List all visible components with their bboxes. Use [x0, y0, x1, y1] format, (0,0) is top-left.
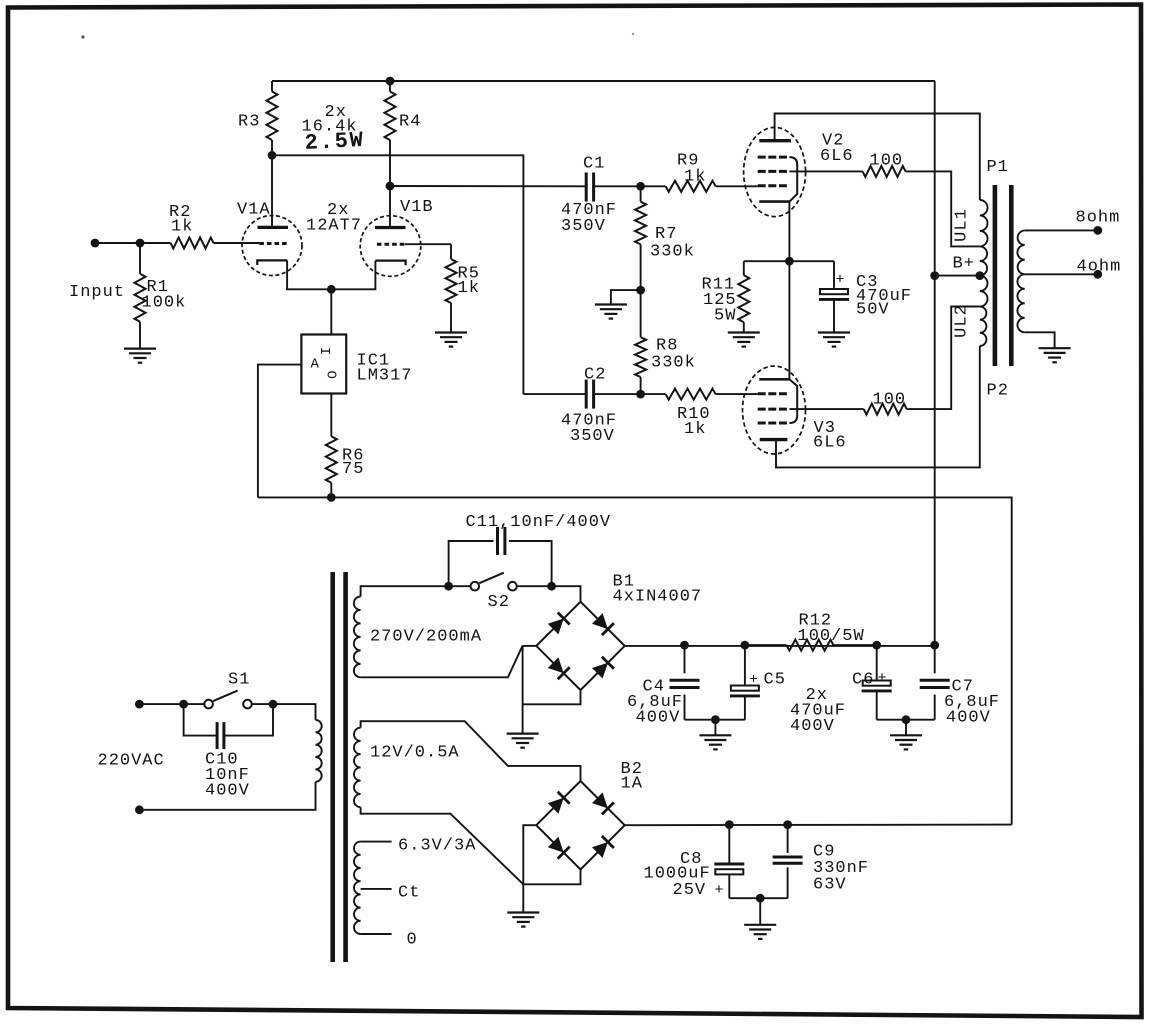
wire input to R1 [95, 242, 140, 244]
wire R4 to V1B plate [389, 155, 391, 228]
svg-text:V1B: V1B [400, 198, 434, 217]
capacitor C9 [787, 825, 789, 853]
wire V2 cathode [788, 202, 790, 262]
wire 100 to UL1 [906, 171, 980, 246]
wire gnd stem [714, 720, 716, 736]
wire to S2 [449, 585, 471, 587]
wire 8ohm tap [1025, 229, 1098, 231]
diode B2 lower-left [548, 837, 564, 853]
capacitor C6 [876, 645, 878, 680]
svg-text:270V/200mA: 270V/200mA [370, 628, 482, 647]
svg-text:C6: C6 [852, 671, 874, 690]
ground R1 [124, 348, 156, 350]
wire gnd stem2 [905, 720, 907, 736]
wire V1B grid to R5 [405, 243, 451, 245]
wire B+ vertical [934, 81, 936, 645]
resistor R11 [743, 261, 745, 275]
core output transformer [993, 185, 998, 366]
transformer secondary 6.3V [354, 842, 361, 934]
wire C6/C7 gnd [877, 719, 935, 721]
wire 0 stub [361, 933, 392, 935]
svg-text:B+: B+ [953, 255, 975, 274]
wire gnd stem3 [522, 884, 524, 912]
svg-text:50V: 50V [856, 301, 890, 320]
pentode V2 6L6 [744, 127, 806, 216]
svg-text:63V: 63V [813, 876, 847, 895]
wire to S1 [184, 703, 205, 705]
op-amp IC1 LM317 regulator [301, 335, 346, 394]
node 4ohm terminal [1093, 270, 1102, 279]
wire R10 to V3 grid [716, 393, 758, 395]
svg-text:0: 0 [407, 931, 418, 950]
resistor 100 screen V2 [863, 166, 906, 177]
resistor R6 [326, 436, 337, 483]
svg-text:C1: C1 [583, 155, 605, 174]
svg-text:I: I [319, 347, 335, 355]
resistor R2 [171, 238, 214, 249]
junction B+ left [930, 271, 939, 280]
svg-text:C5: C5 [764, 671, 786, 690]
junction C11 left [444, 582, 453, 591]
svg-text:6L6: 6L6 [813, 434, 847, 453]
resistor R9 [666, 181, 716, 192]
svg-text:Ct: Ct [398, 884, 420, 903]
resistor R1 [135, 274, 146, 322]
junction C2/R10/R8 [636, 390, 645, 399]
diode B1 lower-left [548, 657, 564, 673]
switch S1 [204, 700, 213, 709]
diode B1 upper-left [548, 619, 564, 635]
svg-text:1k: 1k [684, 420, 706, 439]
triode V1A [242, 216, 302, 276]
wire primary bottom [139, 782, 315, 810]
svg-text:100: 100 [870, 152, 904, 171]
svg-text:UL2: UL2 [953, 304, 972, 338]
svg-text:400V: 400V [636, 709, 681, 728]
svg-text:R3: R3 [238, 113, 260, 132]
wire B2 left corner [523, 825, 536, 884]
wire R9 to V2 grid [716, 185, 758, 187]
svg-text:S2: S2 [488, 593, 510, 612]
capacitor C10 [184, 704, 217, 736]
junction input/R1 [136, 239, 145, 248]
switch S2 [471, 582, 480, 591]
wire V1A cathode [287, 260, 375, 289]
node mains terminal top [135, 700, 144, 709]
capacitor C1 [585, 173, 588, 202]
junction V1A plate node [268, 151, 277, 160]
wire heater rail [258, 497, 1012, 824]
wire R1 to ground [139, 322, 141, 349]
svg-text:400V: 400V [790, 717, 835, 736]
junction C6/C7 gnd [902, 715, 911, 724]
ground C8/C9 [744, 924, 776, 926]
wire 12V bottom to B2 [361, 807, 524, 884]
wire R5 to ground [450, 303, 452, 333]
junction V1B plate node [386, 182, 395, 191]
resistor R4 [385, 92, 396, 141]
svg-text:+: + [877, 670, 886, 687]
svg-text:220VAC: 220VAC [98, 752, 165, 771]
junction C5 rail [741, 641, 750, 650]
diode B2 lower-right [592, 842, 608, 858]
resistor R7 [640, 186, 642, 201]
svg-text:400V: 400V [205, 782, 250, 801]
capacitor C8 [728, 825, 730, 864]
svg-text:5W: 5W [714, 307, 736, 326]
junction C8/C9 gnd [756, 894, 765, 903]
svg-text:4xIN4007: 4xIN4007 [613, 588, 703, 607]
wire 6.3V top stub [361, 841, 392, 843]
svg-text:4ohm: 4ohm [1077, 257, 1122, 276]
wire top rail [272, 80, 935, 82]
svg-text:6L6: 6L6 [820, 147, 854, 166]
node Input terminal [91, 239, 100, 248]
svg-text:400V: 400V [946, 709, 991, 728]
wire V3 screen [789, 408, 863, 410]
wire B2 plus rail [625, 824, 1012, 827]
ground B2 [507, 911, 539, 913]
ground R5 [435, 331, 467, 333]
svg-text:350V: 350V [561, 217, 606, 236]
wire gnd tap [611, 290, 641, 304]
wire S1 to node [252, 703, 273, 705]
wire IC1 output lead [330, 394, 332, 437]
wire V3 cathode [788, 261, 790, 379]
wire 4ohm tap [1025, 273, 1098, 275]
wire S2 to B1 [517, 585, 552, 587]
svg-text:A: A [311, 357, 320, 373]
wire R6 to rail [330, 483, 332, 498]
bridge rectifier B1 [536, 602, 624, 690]
svg-text:1k: 1k [458, 279, 480, 298]
resistor R10 [666, 389, 716, 400]
wire secondary to ground [1025, 332, 1055, 348]
ground C6/C7 [890, 734, 922, 736]
svg-text:100: 100 [873, 391, 907, 410]
diode B2 upper-left [548, 798, 564, 814]
svg-text:R4: R4 [399, 113, 421, 132]
junction cathode node [327, 285, 336, 294]
junction C1/R9/R7 [636, 182, 645, 191]
wire 100 to UL2 [907, 307, 980, 410]
junction C4/C5 gnd [711, 715, 720, 724]
svg-text:12V/0.5A: 12V/0.5A [370, 744, 460, 763]
junction S1 right [269, 700, 278, 709]
resistor R3 [267, 92, 278, 141]
junction R4 top [386, 77, 395, 86]
wire V2 plate to P1 [775, 114, 980, 201]
wire Ct tap stub [361, 888, 392, 890]
svg-text:8ohm: 8ohm [1076, 209, 1121, 228]
transformer primary P1/P2 winding [979, 199, 981, 201]
wire V1B plate to C1 [390, 185, 586, 187]
wire C4/C5 gnd [685, 719, 745, 721]
junction C6 rail [872, 641, 881, 650]
wire gnd stem4 [759, 898, 761, 925]
svg-text:100/5W: 100/5W [798, 627, 865, 646]
transformer HV secondary 270V [354, 597, 361, 678]
triode V1B [360, 216, 421, 277]
wire HV top to S2 [361, 586, 449, 596]
junction C9 rail [783, 820, 792, 829]
transformer secondary winding [1017, 230, 1024, 274]
transformer mains primary winding [316, 720, 322, 782]
svg-text:1k: 1k [684, 168, 706, 187]
node 8ohm terminal [1093, 226, 1102, 235]
junction R6 rail [327, 493, 336, 502]
svg-text:O: O [323, 370, 339, 378]
svg-text:+: + [835, 272, 844, 289]
junction C4 rail [680, 641, 689, 650]
resistor R12 [787, 640, 834, 651]
svg-text:330k: 330k [651, 354, 696, 373]
svg-text:25V: 25V [673, 881, 707, 900]
svg-text:12AT7: 12AT7 [306, 217, 362, 236]
svg-text:+: + [715, 882, 724, 899]
diode B1 upper-right [592, 613, 608, 629]
capacitor C7 [934, 645, 936, 673]
svg-text:350V: 350V [570, 427, 615, 446]
wire V1A plate lead [271, 155, 273, 227]
svg-text:LM317: LM317 [357, 367, 413, 386]
svg-text:Input: Input [69, 283, 125, 302]
wire V1A plate to C2 branch [272, 155, 523, 394]
ground B1 [507, 732, 539, 734]
ground secondary [1039, 347, 1071, 349]
ground R7/R8 node [595, 303, 627, 305]
junction R12 right rail [930, 641, 939, 650]
diode B1 lower-right [592, 663, 608, 679]
wire V3 plate to P2 [776, 346, 980, 467]
resistor R8 [635, 337, 646, 377]
svg-text:100k: 100k [142, 294, 187, 313]
svg-text:UL1: UL1 [953, 208, 972, 242]
svg-text:S1: S1 [228, 671, 250, 690]
svg-text:1k: 1k [171, 218, 193, 237]
capacitor C5 [744, 645, 746, 685]
resistor R5 [446, 259, 457, 303]
wire R1 node to R2 [140, 242, 171, 244]
wire mains top [139, 703, 183, 705]
capacitor C11 [449, 541, 494, 586]
svg-text:V1A: V1A [237, 201, 271, 220]
svg-text:P1: P1 [987, 158, 1009, 177]
svg-text:330k: 330k [650, 243, 695, 262]
svg-text:1A: 1A [621, 775, 643, 794]
wire C1 to node [594, 185, 641, 187]
junction cathode/R11/C3 [785, 257, 794, 266]
wire R1 top lead [139, 243, 141, 274]
capacitor C4 [684, 645, 686, 673]
pentode V3 6L6 [743, 366, 806, 454]
junction S1 left [179, 700, 188, 709]
wire cathode node to IC1 [330, 289, 332, 334]
svg-text:2.5W: 2.5W [304, 128, 365, 156]
wire C8/C9 gnd [729, 897, 787, 899]
capacitor C2 [585, 380, 588, 409]
wire HV bottom to B1 [361, 646, 523, 678]
wire B1 plus rail [625, 645, 935, 647]
core power transformer [330, 572, 335, 962]
ground C4/C5 [699, 734, 731, 736]
junction C8 rail [725, 820, 734, 829]
wire B+ to primary [935, 275, 980, 277]
wire B1 minus to ground [523, 690, 581, 704]
diode B2 upper-right [592, 793, 608, 809]
resistor 100 screen V3 [864, 404, 907, 415]
transformer secondary 12V [354, 728, 361, 808]
svg-text:+: + [749, 672, 758, 689]
junction C11 right [547, 582, 556, 591]
svg-text:C11,10nF/400V: C11,10nF/400V [466, 513, 612, 532]
ground C3 [818, 331, 850, 333]
svg-text:R7: R7 [655, 225, 677, 244]
svg-text:C2: C2 [584, 366, 606, 385]
wire R2 to V1A grid [214, 242, 260, 244]
ground R11 [728, 331, 760, 333]
wire cathode node [744, 260, 834, 262]
capacitor C3 [833, 261, 835, 289]
bridge rectifier B2 [536, 781, 624, 869]
junction R7/R8/gnd [636, 286, 645, 295]
wire B2 minus [523, 869, 580, 884]
wire V2 screen [789, 170, 862, 172]
junction B+ tap [975, 271, 984, 280]
wire IC1 adjust [258, 365, 302, 498]
svg-text:6.3V/3A: 6.3V/3A [398, 837, 476, 856]
svg-text:P2: P2 [987, 382, 1009, 401]
wire B1 left corner [523, 645, 537, 647]
node mains terminal bottom [135, 805, 144, 814]
wire 12V top to B2 [361, 721, 581, 781]
wire S1 to primary [273, 704, 316, 720]
svg-text:75: 75 [342, 460, 364, 479]
wire to B1 top [552, 586, 581, 602]
resistor R8 top lead [640, 290, 642, 337]
